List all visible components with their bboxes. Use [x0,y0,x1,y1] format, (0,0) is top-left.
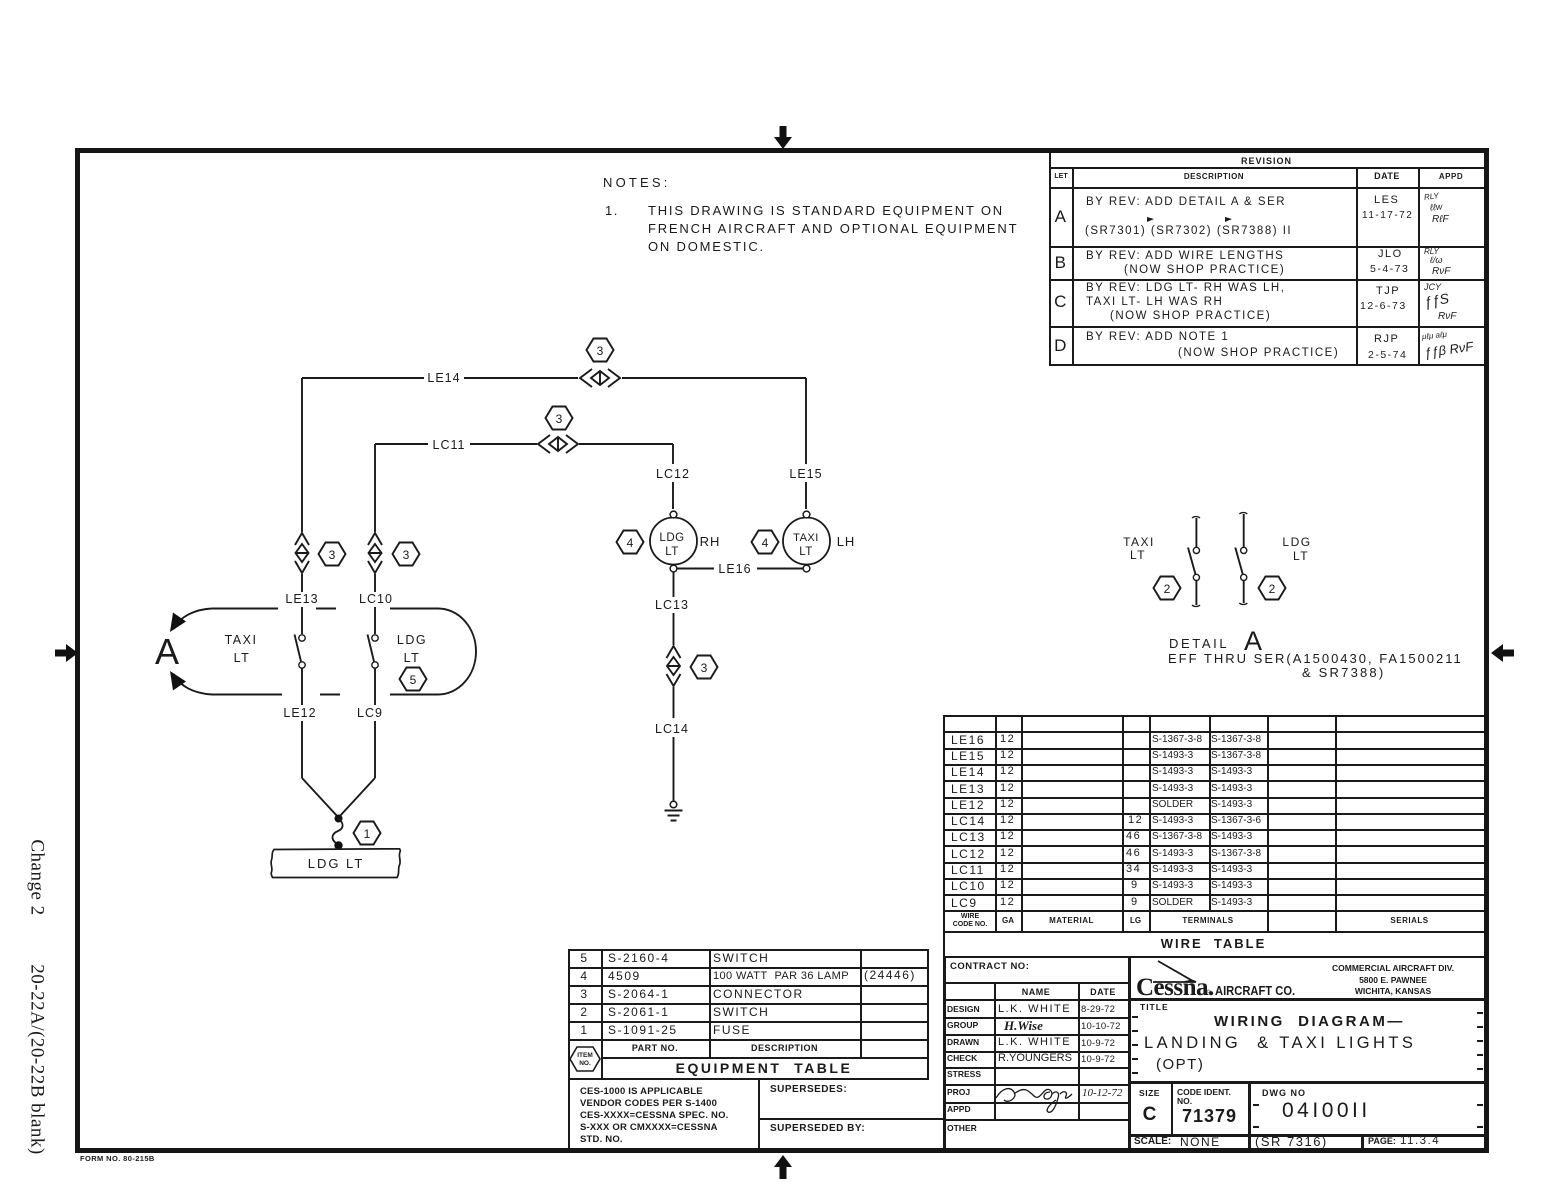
svg-text:EFF THRU SER(A1500430, FA15002: EFF THRU SER(A1500430, FA1500211 [1168,651,1463,666]
size/code/dwg row [1128,1081,1487,1084]
svg-text:3: 3 [403,548,410,562]
svg-text:LH: LH [837,534,856,549]
svg-text:LT: LT [404,651,421,665]
top edge arrow [774,126,792,149]
svg-text:3: 3 [329,548,336,562]
row lines [568,967,929,969]
outer lines [943,956,946,1148]
title row [1140,1003,1169,1012]
detail switch ldg lt [1235,513,1247,605]
item 3 hexagon beside LC10 splice [393,543,420,566]
svg-text:LDG: LDG [659,532,684,544]
svg-text:LC12: LC12 [656,467,690,481]
fuse squiggle [332,819,342,850]
spine text Change 2 [28,833,47,923]
LDG LT bus bar [271,849,400,878]
detail taxi lt label [1123,535,1155,562]
wire LE15 vertical [789,378,822,509]
REVISION header row [1049,167,1484,169]
detail A caption [1168,626,1463,680]
svg-text:LE12: LE12 [283,706,316,720]
outer box upper part [568,949,929,951]
NOTES heading [603,176,671,189]
left column: contract row [943,982,1131,984]
spine text 20-22A [28,950,47,1170]
svg-text:LC9: LC9 [357,706,383,720]
svg-text:RH: RH [700,534,721,549]
item 2 hexagon left [1154,577,1181,600]
switch (ldg lt) S2 [368,635,379,669]
row D [1049,337,1073,354]
lamp TAXI LT LH [783,511,830,572]
svg-text:LDG: LDG [1282,535,1311,549]
wire rows data [951,734,985,746]
item 4 hexagon left of TAXI lamp [752,531,779,554]
svg-text:LT: LT [799,546,813,558]
svg-text:4: 4 [762,536,769,550]
header [601,1044,709,1053]
svg-text:3: 3 [701,661,708,675]
detail switch taxi lt [1188,517,1200,607]
item 3 hexagon above LC11 connector [546,407,573,430]
item 3 hexagon above LE14 connector [587,339,614,362]
svg-text:2: 2 [1269,582,1276,596]
wire LE13 vertical (left chain) [285,378,318,634]
right edge arrow [1491,644,1514,662]
svg-text:LC14: LC14 [655,722,689,736]
column lines [601,949,603,1080]
form no [80,1155,155,1163]
svg-text:LT: LT [1130,548,1146,562]
wire LE16 [677,562,803,576]
outer lines [1049,153,1051,366]
svg-text:3: 3 [597,344,604,358]
row C [1049,326,1484,328]
svg-text:LDG: LDG [397,633,427,647]
edge dashes left [1132,1016,1138,1018]
WIRE TABLE title [943,937,1484,950]
outer box [943,715,1484,717]
header row labels [945,913,995,920]
wire LC11 [375,438,673,452]
item 3 hexagon beside LC13 splice [691,656,718,679]
item 3 hexagon beside LE13 splice [319,543,346,566]
scale row [1128,1134,1487,1137]
left edge arrow [55,644,78,662]
svg-text:LC10: LC10 [359,592,393,606]
item no hexagon [566,1040,604,1078]
svg-text:LE15: LE15 [789,467,822,481]
svg-text:3: 3 [556,412,563,426]
item 1 hexagon [354,822,381,845]
lower section [568,1078,570,1148]
svg-text:& SR7388): & SR7388) [1302,665,1385,680]
item 2 hexagon right [1259,577,1286,600]
detail ldg lt label [1282,535,1311,563]
svg-text:LDG LT: LDG LT [308,856,365,871]
svg-text:TAXI: TAXI [793,532,819,544]
svg-text:5: 5 [410,673,417,687]
svg-text:LC11: LC11 [433,438,466,452]
wire LC12 vertical [656,444,690,509]
svg-text:2: 2 [1164,582,1171,596]
detail A boundary stadium [170,609,476,695]
wire LC10 vertical (second chain) [359,444,393,634]
splice symbol on LC10 [368,533,382,573]
lamp LDG LT RH [650,511,697,572]
svg-text:DETAIL: DETAIL [1169,636,1229,651]
rows [943,1017,1131,1019]
page border frame [75,148,1489,1153]
svg-text:LT: LT [234,651,251,665]
svg-text:LT: LT [665,546,679,558]
data rows [568,952,601,964]
item 5 hexagon [400,668,427,691]
bottom edge arrow [774,1155,792,1179]
taxi lt switch label [225,633,258,665]
horizontal row lines [943,731,1484,733]
connector symbol on LC11 [538,435,578,453]
right part: cessna logo row [1128,998,1487,1001]
svg-text:LC13: LC13 [655,598,689,612]
svg-text:LE16: LE16 [718,562,751,576]
svg-text:LT: LT [1293,549,1309,563]
note 1 [605,204,619,217]
cessna logo [1130,956,1310,1000]
ground [665,801,683,820]
row B [1049,279,1484,281]
svg-text:A: A [155,631,179,672]
splice symbol on LE13 [295,533,309,573]
svg-text:LE14: LE14 [427,371,460,385]
row A [1049,246,1484,248]
connector symbol on LE14 [580,369,620,387]
item 4 hexagon left of LDG lamp [617,531,644,554]
vertical column lines [995,715,997,931]
wire LC14 [655,687,689,801]
name/date header [943,999,1131,1001]
svg-text:TAXI: TAXI [1123,535,1155,549]
wire junction V to fuse [302,778,375,823]
svg-text:TAXI: TAXI [225,633,258,647]
wire LC9 [357,668,383,778]
splice symbol on LC13 [667,646,681,686]
svg-text:4: 4 [627,536,634,550]
edge dashes right [1477,1012,1483,1014]
ldg lt switch label [397,633,427,665]
svg-text:1: 1 [364,827,371,841]
wire LE12 [283,668,316,778]
svg-text:LE13: LE13 [285,592,318,606]
wire LE14 [302,371,806,385]
column header row [1049,187,1484,189]
wire LC13 [655,572,689,645]
switch (taxi lt) S1 [295,635,306,669]
proj signature [994,1082,1084,1116]
